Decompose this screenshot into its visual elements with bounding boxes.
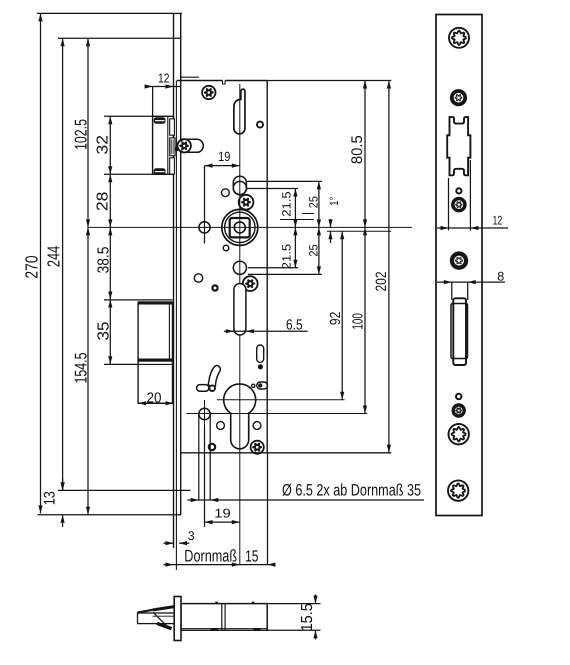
strike plate outline xyxy=(436,15,482,516)
slot 6.5 capsule xyxy=(234,284,246,336)
tiny dot left of capsule xyxy=(252,384,255,387)
horizontal centerline through follower xyxy=(88,226,412,228)
extension line faceplate bottom y=514.7 xyxy=(37,514,181,516)
dim 15.5 xyxy=(315,595,317,604)
deadbolt inner line y=364.4 xyxy=(138,363,174,365)
strike plate torx rosette top xyxy=(449,28,469,48)
strike plate ring screw 1 xyxy=(450,89,467,106)
small dot below capsule xyxy=(258,364,263,369)
svg-text:Dornmaß: Dornmaß xyxy=(184,546,237,565)
screw bottom right xyxy=(251,441,264,454)
svg-text:3: 3 xyxy=(188,529,195,543)
svg-text:12: 12 xyxy=(493,213,503,227)
svg-text:19: 19 xyxy=(218,149,230,164)
screw above-right of follower xyxy=(239,195,254,210)
case top edge with notch xyxy=(177,80,223,82)
strike plate torx rosette 3 xyxy=(449,424,469,444)
euro cylinder keyhole xyxy=(224,384,256,449)
svg-text:21.5: 21.5 xyxy=(279,191,293,217)
small hole left below cylinder xyxy=(217,422,225,430)
dim 80.5 xyxy=(364,81,366,228)
vertical centerline through follower and cylinder xyxy=(239,84,241,565)
extension line cylinder center y=398.5 xyxy=(217,399,345,401)
follower outer circle xyxy=(222,209,258,245)
dim 19 top xyxy=(205,165,240,167)
dim 154.5 xyxy=(87,227,89,514)
svg-text:Ø 6.5 2x ab Dornmaß 35: Ø 6.5 2x ab Dornmaß 35 xyxy=(282,481,421,499)
svg-text:244: 244 xyxy=(43,245,63,267)
latch bolt top bevel thick xyxy=(153,607,175,610)
dim 92 xyxy=(341,231,343,399)
faceplate inner line xyxy=(175,81,177,571)
dim 25 upper xyxy=(318,181,320,227)
strike plate ring screw 3 xyxy=(450,251,468,269)
dim 3 xyxy=(164,542,174,544)
heavy ring small hole xyxy=(212,285,217,290)
svg-text:8: 8 xyxy=(497,270,504,284)
svg-text:270: 270 xyxy=(22,255,42,278)
latch slot J-shape xyxy=(234,89,245,134)
follower inner circle xyxy=(225,212,255,242)
side view case body xyxy=(181,604,267,631)
dim 38.5 xyxy=(109,227,111,299)
faceplate tab lower xyxy=(170,158,175,174)
latch bolt lower bevel thick xyxy=(157,623,172,628)
dim 20 xyxy=(138,402,173,404)
strike plate deadbolt slot outer xyxy=(451,304,468,359)
latch housing inner vertical line xyxy=(167,116,169,174)
extension line hole top edge y=181.4 xyxy=(247,180,323,182)
side view faceplate section xyxy=(174,597,181,641)
small hole below-left of follower xyxy=(223,245,229,251)
screw torx upper xyxy=(202,86,215,99)
extension line hole center y=188.5 xyxy=(247,188,299,190)
small capsule right upper xyxy=(257,345,264,362)
hole far left lower xyxy=(194,274,202,282)
extension line faceplate top y=13.4 xyxy=(37,12,182,14)
strike plate latch cutout xyxy=(447,117,470,175)
svg-text:20: 20 xyxy=(147,390,162,406)
svg-text:154.5: 154.5 xyxy=(71,353,90,384)
svg-text:92: 92 xyxy=(328,312,344,326)
strike plate small dot lower xyxy=(456,394,461,399)
dark fill left end of capsule xyxy=(180,140,184,152)
faceplate right line xyxy=(180,13,182,514)
case top extension line to right dims xyxy=(267,80,391,82)
strike plate torx rosette 4 xyxy=(448,480,468,500)
latch housing top clip dark xyxy=(154,117,166,123)
svg-text:25: 25 xyxy=(307,196,321,208)
lever arm curved xyxy=(197,365,221,391)
screw housing capsule upper left xyxy=(178,139,204,152)
deadbolt block outline xyxy=(138,302,172,403)
dim 8 strike plate extensions xyxy=(451,282,453,300)
side view divider lines xyxy=(221,603,223,630)
dim 100 xyxy=(364,227,366,413)
dim 270 xyxy=(40,13,42,513)
dim 244 xyxy=(62,38,64,490)
screw in capsule xyxy=(178,139,191,152)
svg-text:32: 32 xyxy=(95,135,112,155)
case top double line stub xyxy=(181,76,199,78)
svg-text:100: 100 xyxy=(351,313,367,330)
dim 102.5 xyxy=(87,38,89,227)
svg-text:21.5: 21.5 xyxy=(279,244,293,270)
dim 25 lower xyxy=(318,227,320,274)
dim 21.5 lower xyxy=(294,227,296,267)
extension line hole center y=267.8 xyxy=(248,267,298,269)
extension lines hole edges x=198.7 and x=210.3 xyxy=(198,415,200,501)
svg-text:35: 35 xyxy=(96,321,113,340)
dim 12 strike plate extensions xyxy=(448,178,450,231)
extension line lower hole y=413.5 xyxy=(187,413,368,415)
side view bottom dark tab 1 xyxy=(211,628,219,631)
1 degree reference line xyxy=(327,230,391,232)
svg-text:28: 28 xyxy=(95,191,112,211)
dim 32 xyxy=(109,116,111,174)
svg-text:202: 202 xyxy=(373,272,390,292)
svg-text:80.5: 80.5 xyxy=(349,135,366,164)
extension line y=490.4 xyxy=(58,489,191,491)
fixing hole left with crosshair xyxy=(199,222,210,233)
extension line top hole y=38.2 xyxy=(58,37,181,39)
dim 12 top xyxy=(145,86,181,88)
dim 202 xyxy=(388,81,390,453)
dim 15.5 extension lines xyxy=(267,603,320,605)
strike plate ring screw 4 xyxy=(452,403,466,417)
dim 35 xyxy=(109,300,111,365)
deadbolt inner vertical line xyxy=(168,305,170,359)
svg-text:15.5: 15.5 xyxy=(299,603,316,631)
leader line diameter 6.5 2x xyxy=(187,499,424,501)
dim line Dornmass 15 xyxy=(164,564,276,566)
extension line for 12 at x=152.6 xyxy=(152,87,154,117)
extension case right edge down xyxy=(267,453,269,565)
extension x=204.5 down to dim 19 xyxy=(204,427,206,527)
hole above follower - capsule xyxy=(233,176,246,194)
faceplate tab middle with slit xyxy=(170,138,175,156)
svg-text:102.5: 102.5 xyxy=(71,119,90,150)
1 degree arrows xyxy=(330,219,332,227)
side view bottom dark tab 2 xyxy=(254,628,261,631)
dim 12 strike plate xyxy=(437,227,508,229)
inner dim column 32/28/38.5/35 extension lines xyxy=(104,115,153,117)
faceplate edge view left line xyxy=(173,13,175,548)
strike plate small dot xyxy=(456,188,461,193)
extension line hole bottom y=274.4 xyxy=(248,273,322,275)
latch housing bottom clip dark xyxy=(154,168,166,174)
deadbolt thick band xyxy=(138,359,172,362)
case bottom edge + extension xyxy=(181,452,391,454)
small hole right below cylinder xyxy=(253,422,261,430)
side view top tick 2 xyxy=(252,602,255,604)
svg-text:19: 19 xyxy=(214,506,231,520)
svg-text:6.5: 6.5 xyxy=(286,318,303,334)
follower square xyxy=(230,218,250,237)
screw below-right of follower xyxy=(243,276,258,291)
small hole right of latch slot xyxy=(257,122,263,128)
small hole upper-left of follower xyxy=(222,189,230,197)
case top notch xyxy=(223,81,226,85)
svg-text:38.5: 38.5 xyxy=(96,247,113,274)
case right edge xyxy=(266,81,268,453)
svg-text:25: 25 xyxy=(307,244,321,256)
hole below follower xyxy=(233,261,246,274)
lever pivot circle xyxy=(209,385,215,391)
hole left of cylinder lower with crosshair xyxy=(199,408,210,419)
latch bolt taper to tip xyxy=(138,610,153,613)
follower center circle xyxy=(234,222,245,233)
dim 19 bottom xyxy=(205,521,240,523)
small hole bottom left xyxy=(209,444,215,450)
dim 8 strike plate xyxy=(437,281,505,283)
dim 6.5 leader xyxy=(224,330,308,332)
hole above follower - circle xyxy=(233,181,246,194)
svg-text:1°: 1° xyxy=(327,197,341,206)
svg-text:13: 13 xyxy=(42,491,59,505)
dim 13 xyxy=(61,482,65,490)
extension line x=204.5 for 19 xyxy=(204,166,206,244)
side view inner bottom line xyxy=(181,627,267,629)
small horizontal capsule right xyxy=(257,382,268,389)
dim 28 xyxy=(109,174,111,227)
strike plate ring screw 2 xyxy=(451,197,467,213)
deadbolt top thick band xyxy=(138,301,172,304)
faceplate tab upper xyxy=(170,119,175,135)
strike plate deadbolt slot inner xyxy=(453,298,466,365)
dark clip at faceplate near capsule xyxy=(175,147,179,152)
latch bolt inner line xyxy=(153,615,175,617)
side view latch bolt body xyxy=(138,613,175,624)
tick marks near square xyxy=(280,219,314,221)
latch housing block outline xyxy=(153,116,174,174)
svg-text:15: 15 xyxy=(245,547,258,565)
latch bolt diagonal xyxy=(153,612,168,627)
svg-text:12: 12 xyxy=(158,71,170,86)
dim 21.5 upper xyxy=(294,189,296,228)
side view top tick 1 xyxy=(215,602,218,604)
